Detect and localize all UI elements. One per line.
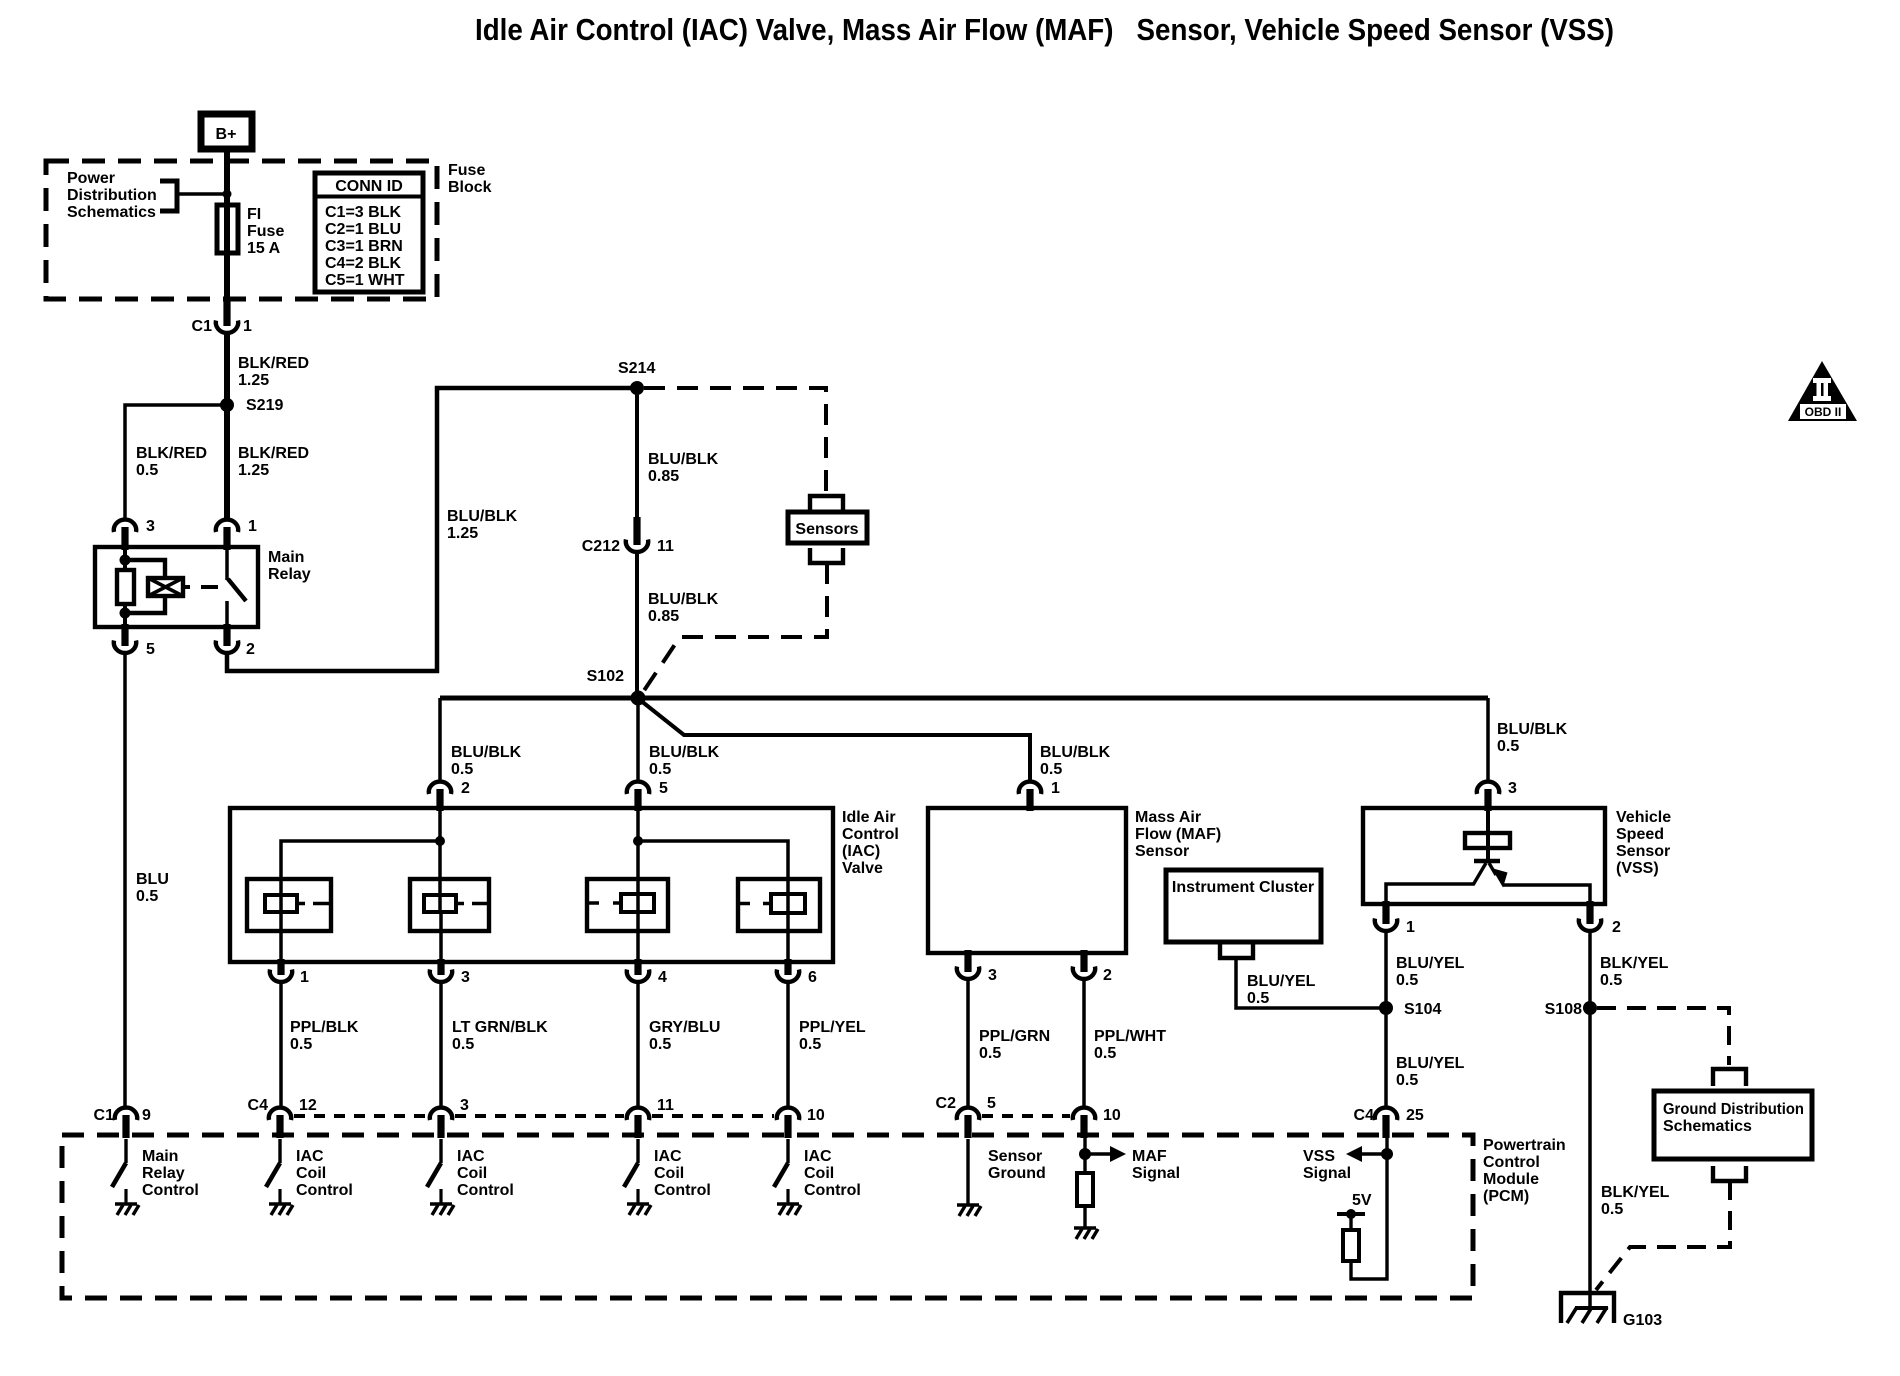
wire label BLU 0.5 <box>136 871 169 905</box>
splice S108 <box>1583 1001 1597 1015</box>
instrument cluster connector bracket <box>1220 944 1253 958</box>
PCM ground main relay control <box>115 1204 139 1215</box>
MAF signal arrow <box>1085 1146 1126 1162</box>
wire B+ to fuse FI <box>224 149 230 302</box>
wire label GRY/BLU <box>649 1019 720 1053</box>
svg-text:C4: C4 <box>248 1097 269 1114</box>
MAF signal label <box>1132 1148 1180 1182</box>
IAC internal node B <box>633 836 643 846</box>
svg-text:Distribution: Distribution <box>67 187 157 204</box>
5V pullup wire lower <box>1351 1138 1387 1279</box>
dashed wire S108 to ground distribution <box>1597 1008 1729 1065</box>
svg-text:5: 5 <box>659 780 668 797</box>
VSS connector pin 1 <box>1375 901 1415 936</box>
wire label BLU/BLK 0.5 iac5 <box>649 744 720 778</box>
svg-text:OBD II: OBD II <box>1805 405 1842 419</box>
svg-text:S108: S108 <box>1545 1001 1582 1018</box>
svg-text:Coil: Coil <box>804 1165 834 1182</box>
svg-text:FI: FI <box>247 206 261 223</box>
svg-text:Powertrain: Powertrain <box>1483 1137 1566 1154</box>
main relay connector pin 2 <box>216 624 255 658</box>
IAC coil3 wire to pin4 <box>636 912 640 965</box>
svg-text:Speed: Speed <box>1616 826 1664 843</box>
VSS transistor base bar <box>1474 859 1500 863</box>
wire BLU/BLK 0.85 S214 to C212 <box>635 388 639 524</box>
svg-text:BLK/YEL: BLK/YEL <box>1601 1184 1670 1201</box>
svg-text:0.5: 0.5 <box>136 462 158 479</box>
PCM ground IAC coil 3 <box>627 1204 651 1215</box>
svg-text:BLK/RED: BLK/RED <box>136 445 207 462</box>
wire BLU/BLK 0.5 to IAC pin5 <box>636 698 640 781</box>
svg-text:5: 5 <box>987 1095 996 1112</box>
main relay box <box>95 547 258 627</box>
svg-text:Signal: Signal <box>1132 1165 1180 1182</box>
PCM sensor ground wire <box>966 1139 969 1204</box>
svg-text:Sensors: Sensors <box>795 521 858 538</box>
VSS transistor collector leg with arrow <box>1489 863 1508 888</box>
svg-text:Signal: Signal <box>1303 1165 1351 1182</box>
svg-text:3: 3 <box>146 518 155 535</box>
wire label PPL/BLK <box>290 1019 359 1053</box>
OBD II mark <box>1788 361 1857 421</box>
wire label BLK/YEL vss lower <box>1601 1184 1670 1218</box>
svg-text:IAC: IAC <box>296 1148 324 1165</box>
svg-text:Control: Control <box>457 1182 514 1199</box>
svg-text:C1: C1 <box>94 1107 115 1124</box>
main relay control label <box>142 1148 199 1199</box>
IAC coil 2 <box>410 879 489 931</box>
sensors box <box>788 512 867 543</box>
ground distribution schematics box <box>1654 1091 1812 1159</box>
svg-text:0.5: 0.5 <box>1396 1072 1418 1089</box>
PCM connector pin 3 <box>430 1097 469 1138</box>
svg-text:BLU/BLK: BLU/BLK <box>648 591 719 608</box>
PCM connector C4 pin 12 <box>248 1097 317 1138</box>
svg-text:Control: Control <box>1483 1154 1540 1171</box>
PCM connector C4 pin 25 <box>1354 1107 1424 1138</box>
svg-text:Block: Block <box>448 179 492 196</box>
svg-text:IAC: IAC <box>457 1148 485 1165</box>
svg-text:C2: C2 <box>936 1095 957 1112</box>
wire label BLU/BLK 0.5 maf <box>1040 744 1111 778</box>
wire label LT GRN/BLK <box>452 1019 548 1053</box>
tap junction dot <box>223 190 232 199</box>
svg-text:1: 1 <box>243 318 252 335</box>
PCM connector C1 pin 9 <box>94 1107 151 1138</box>
svg-text:0.5: 0.5 <box>1497 738 1519 755</box>
relay coil wire from pin3 <box>123 547 127 570</box>
VSS box <box>1363 808 1605 904</box>
svg-text:Fuse: Fuse <box>247 223 284 240</box>
dashed wire S214 to sensors <box>644 388 826 494</box>
svg-text:S219: S219 <box>246 397 283 414</box>
svg-text:C212: C212 <box>582 538 620 555</box>
dotted connector link 5-10 <box>982 1114 1070 1118</box>
main relay connector pin 3 <box>114 518 155 550</box>
power distribution schematics reference <box>67 170 157 221</box>
VSS signal label <box>1303 1148 1351 1182</box>
svg-text:0.85: 0.85 <box>648 468 679 485</box>
VSS signal arrow <box>1346 1146 1387 1162</box>
splice S104 <box>1379 1001 1393 1015</box>
svg-text:Idle Air Control (IAC) Valve,: Idle Air Control (IAC) Valve, Mass Air F… <box>475 12 1614 47</box>
wire BLU/BLK 0.85 C212 to S102 <box>635 552 639 694</box>
svg-text:(IAC): (IAC) <box>842 843 880 860</box>
ground G103 symbol <box>1561 1293 1614 1323</box>
svg-text:2: 2 <box>1612 919 1621 936</box>
svg-text:0.5: 0.5 <box>1094 1045 1116 1062</box>
svg-text:1.25: 1.25 <box>238 462 269 479</box>
svg-text:BLU/YEL: BLU/YEL <box>1396 955 1465 972</box>
VSS sensor element <box>1465 833 1510 848</box>
VSS transistor emitter leg <box>1473 863 1486 885</box>
PCM connector pin 11 <box>627 1097 674 1138</box>
main relay connector pin 1 <box>216 518 257 550</box>
S214 label <box>618 360 655 377</box>
svg-text:Control: Control <box>296 1182 353 1199</box>
IAC connector pin 2 <box>429 780 470 811</box>
PCM dashed outline <box>62 1135 1473 1298</box>
svg-text:0.85: 0.85 <box>648 608 679 625</box>
svg-text:0.5: 0.5 <box>1600 972 1622 989</box>
svg-text:0.5: 0.5 <box>799 1036 821 1053</box>
svg-text:Sensor: Sensor <box>988 1148 1042 1165</box>
relay coil resistor <box>117 570 134 604</box>
PCM sensor ground symbol <box>957 1205 981 1216</box>
ground distribution bracket top <box>1713 1069 1746 1086</box>
MAF pulldown ground <box>1074 1228 1098 1239</box>
wire label BLK/YEL vss upper <box>1600 955 1669 989</box>
svg-text:Relay: Relay <box>142 1165 185 1182</box>
svg-text:Control: Control <box>142 1182 199 1199</box>
IAC internal branch to coil1 <box>281 841 440 913</box>
splice S102 <box>631 691 646 706</box>
wire BLU/BLK 0.5 to VSS pin3 <box>1486 698 1490 781</box>
IAC valve box <box>230 808 833 962</box>
wire BLU/BLK 0.5 diagonal to MAF <box>640 700 1030 781</box>
svg-text:12: 12 <box>299 1097 317 1114</box>
wire PPL/BLK 0.5 <box>279 982 283 1108</box>
IAC coil1 wire to pin1 <box>279 912 283 965</box>
svg-text:1: 1 <box>300 969 309 986</box>
wire PPL/GRN 0.5 <box>966 980 970 1108</box>
svg-text:Coil: Coil <box>457 1165 487 1182</box>
sensor ground label <box>988 1148 1046 1182</box>
MAF sensor box <box>928 808 1126 953</box>
S219 label <box>246 397 283 414</box>
svg-text:LT GRN/BLK: LT GRN/BLK <box>452 1019 548 1036</box>
relay switch lower contact <box>225 601 229 630</box>
IAC coil2 wire to pin3 <box>439 912 443 965</box>
S108 label <box>1545 1001 1582 1018</box>
svg-text:1: 1 <box>248 518 257 535</box>
svg-text:(VSS): (VSS) <box>1616 860 1659 877</box>
svg-text:Valve: Valve <box>842 860 883 877</box>
IAC coil 1 <box>247 879 331 931</box>
MAF signal node <box>1079 1148 1091 1160</box>
wire label BLU/YEL cluster <box>1247 973 1316 1007</box>
wire BLK/RED 1.25 to relay pin1 <box>224 405 230 518</box>
VSS connector pin 3 <box>1477 780 1517 811</box>
svg-text:BLU: BLU <box>136 871 169 888</box>
VSS internal wire to pin2 <box>1503 885 1590 904</box>
svg-text:BLU/YEL: BLU/YEL <box>1247 973 1316 990</box>
relay coil wire to pin5 <box>123 604 127 630</box>
MAF connector pin 2 <box>1073 950 1112 984</box>
PCM IAC coil control switch 3 <box>624 1139 638 1203</box>
svg-text:0.5: 0.5 <box>649 761 671 778</box>
wire label BLU/BLK 0.5 vss <box>1497 721 1568 755</box>
wire label PPL/WHT <box>1094 1028 1166 1062</box>
wire BLU/YEL cluster to S104 <box>1236 958 1380 1008</box>
IAC connector pin 4 <box>627 959 667 986</box>
svg-text:Fuse: Fuse <box>448 162 485 179</box>
wire BLK/RED 1.25 to S219 <box>224 333 230 405</box>
wire PPL/YEL 0.5 <box>786 982 790 1108</box>
svg-text:3: 3 <box>988 967 997 984</box>
IAC coil control label 1 <box>296 1148 353 1199</box>
wire label BLU/BLK 1.25 <box>447 508 518 542</box>
svg-text:Schematics: Schematics <box>1663 1118 1752 1135</box>
svg-text:9: 9 <box>142 1107 151 1124</box>
svg-text:C4=2 BLK: C4=2 BLK <box>325 255 401 272</box>
wire label BLU/BLK 0.85 lower <box>648 591 719 625</box>
relay switch blade <box>228 579 246 601</box>
main relay connector pin 5 <box>114 624 155 658</box>
svg-text:2: 2 <box>246 641 255 658</box>
tap wire from bracket to feed <box>177 192 227 195</box>
wire LT GRN/BLK 0.5 <box>439 982 443 1108</box>
svg-text:2: 2 <box>1103 967 1112 984</box>
wire BLU/YEL 0.5 vss pin1 <box>1384 932 1388 1108</box>
IAC valve label <box>842 809 899 877</box>
5V node dot <box>1346 1209 1356 1219</box>
svg-text:VSS: VSS <box>1303 1148 1335 1165</box>
fuse FI 15A symbol <box>217 205 238 253</box>
IAC coil control label 3 <box>654 1148 711 1199</box>
svg-text:Main: Main <box>142 1148 178 1165</box>
wire label BLK/RED 0.5 <box>136 445 207 479</box>
CONN ID table <box>315 173 423 292</box>
svg-text:Coil: Coil <box>654 1165 684 1182</box>
MAF connector pin 3 <box>957 950 997 984</box>
S104 label <box>1404 1001 1441 1018</box>
svg-text:11: 11 <box>657 538 674 555</box>
svg-text:5: 5 <box>146 641 155 658</box>
IAC coil4 wire to pin6 <box>786 913 790 965</box>
VSS pullup resistor <box>1343 1230 1359 1261</box>
svg-text:Ground Distribution: Ground Distribution <box>1663 1101 1804 1118</box>
svg-text:Power: Power <box>67 170 115 187</box>
relay switch upper contact <box>225 547 229 580</box>
dotted connector link 3-11 <box>455 1114 624 1118</box>
svg-text:Control: Control <box>654 1182 711 1199</box>
G103 label <box>1623 1312 1662 1329</box>
svg-text:3: 3 <box>460 1097 469 1114</box>
svg-text:Vehicle: Vehicle <box>1616 809 1671 826</box>
svg-text:BLU/BLK: BLU/BLK <box>447 508 518 525</box>
svg-text:B+: B+ <box>216 126 237 143</box>
PCM IAC coil control switch 4 <box>774 1139 788 1203</box>
svg-text:BLK/RED: BLK/RED <box>238 445 309 462</box>
wire label BLU/YEL vss lower <box>1396 1055 1465 1089</box>
svg-text:Instrument Cluster: Instrument Cluster <box>1172 879 1314 896</box>
wire label PPL/GRN <box>979 1028 1050 1062</box>
relay node top <box>120 555 131 566</box>
svg-text:S104: S104 <box>1404 1001 1441 1018</box>
svg-text:1.25: 1.25 <box>447 525 478 542</box>
IAC coil control label 2 <box>457 1148 514 1199</box>
PCM connector pin 10 <box>777 1107 825 1138</box>
ground distribution bracket bottom <box>1713 1166 1746 1181</box>
svg-text:1: 1 <box>1051 780 1060 797</box>
IAC internal wire pin2 drop <box>438 808 442 913</box>
battery feed B+ terminal <box>201 114 252 149</box>
svg-text:S102: S102 <box>587 668 624 685</box>
svg-text:0.5: 0.5 <box>1040 761 1062 778</box>
svg-text:Main: Main <box>268 549 304 566</box>
svg-text:C3=1 BRN: C3=1 BRN <box>325 238 403 255</box>
fuse block label <box>448 162 492 196</box>
wire GRY/BLU 0.5 <box>636 982 640 1108</box>
5V pullup wire upper <box>1349 1214 1352 1230</box>
wire label BLU/BLK 0.85 upper <box>648 451 719 485</box>
svg-text:PPL/BLK: PPL/BLK <box>290 1019 359 1036</box>
5V supply bar <box>1337 1212 1365 1216</box>
svg-text:C2=1 BLU: C2=1 BLU <box>325 221 401 238</box>
svg-text:15 A: 15 A <box>247 240 281 257</box>
svg-text:0.5: 0.5 <box>649 1036 671 1053</box>
svg-text:PPL/GRN: PPL/GRN <box>979 1028 1050 1045</box>
svg-text:BLK/YEL: BLK/YEL <box>1600 955 1669 972</box>
svg-text:IAC: IAC <box>654 1148 682 1165</box>
svg-text:Sensor: Sensor <box>1616 843 1670 860</box>
PCM IAC coil control switch 2 <box>427 1139 441 1203</box>
svg-text:(PCM): (PCM) <box>1483 1188 1529 1205</box>
svg-text:4: 4 <box>658 969 667 986</box>
svg-text:BLU/BLK: BLU/BLK <box>451 744 522 761</box>
svg-text:S214: S214 <box>618 360 655 377</box>
VSS signal node <box>1381 1148 1393 1160</box>
svg-text:C1=3 BLK: C1=3 BLK <box>325 204 401 221</box>
svg-text:2: 2 <box>461 780 470 797</box>
dashed wire ground distribution to G103 <box>1596 1181 1730 1290</box>
dotted connector link 12-3 <box>294 1114 427 1118</box>
fuse block dashed outline <box>46 161 437 299</box>
bus wire BLU/BLK S102 horizontal <box>440 696 1488 701</box>
wire BLU/BLK 0.5 to IAC pin2 <box>438 698 442 781</box>
svg-text:G103: G103 <box>1623 1312 1662 1329</box>
svg-text:C1: C1 <box>192 318 213 335</box>
relay actuator dashed link <box>183 585 218 589</box>
IAC coil control label 4 <box>804 1148 861 1199</box>
wire label BLU/YEL vss upper <box>1396 955 1465 989</box>
splice S219 <box>220 398 234 412</box>
svg-text:0.5: 0.5 <box>136 888 158 905</box>
IAC internal wire pin5 drop <box>636 808 640 913</box>
wire label BLK/RED 1.25 lower <box>238 445 309 479</box>
fuse FI label <box>247 206 284 257</box>
svg-text:0.5: 0.5 <box>290 1036 312 1053</box>
svg-text:0.5: 0.5 <box>1247 990 1269 1007</box>
wire label BLK/RED 1.25 upper <box>238 355 309 389</box>
svg-text:BLK/RED: BLK/RED <box>238 355 309 372</box>
wire BLU 0.5 relay pin5 to PCM <box>123 653 127 1108</box>
MAF signal pulldown wire upper <box>1083 1138 1086 1173</box>
svg-text:6: 6 <box>808 969 817 986</box>
svg-text:10: 10 <box>807 1107 825 1124</box>
svg-text:BLU/BLK: BLU/BLK <box>648 451 719 468</box>
svg-text:0.5: 0.5 <box>451 761 473 778</box>
dotted connector link 11-10 <box>652 1114 774 1118</box>
VSS internal wire to pin1 <box>1386 884 1474 904</box>
svg-text:0.5: 0.5 <box>1396 972 1418 989</box>
PCM connector C2 pin 5 <box>936 1095 996 1138</box>
PCM ground IAC coil 4 <box>777 1204 801 1215</box>
wire label BLU/BLK 0.5 iac2 <box>451 744 522 778</box>
svg-text:Control: Control <box>804 1182 861 1199</box>
sensors connector bracket bottom <box>810 548 843 563</box>
svg-text:Module: Module <box>1483 1171 1539 1188</box>
svg-text:Control: Control <box>842 826 899 843</box>
svg-text:PPL/YEL: PPL/YEL <box>799 1019 866 1036</box>
IAC coil 4 <box>738 879 820 931</box>
IAC connector pin 5 <box>627 780 668 811</box>
svg-text:5V: 5V <box>1352 1192 1372 1209</box>
IAC connector pin 6 <box>777 959 817 986</box>
VSS internal wire from pin3 <box>1486 808 1490 859</box>
svg-text:0.5: 0.5 <box>1601 1201 1623 1218</box>
wire label PPL/YEL <box>799 1019 866 1053</box>
svg-text:10: 10 <box>1103 1107 1121 1124</box>
svg-text:BLU/BLK: BLU/BLK <box>1040 744 1111 761</box>
IAC internal branch to coil4 <box>638 841 788 914</box>
relay solenoid box with X <box>148 578 183 596</box>
sensors connector bracket top <box>810 496 843 512</box>
svg-text:0.5: 0.5 <box>979 1045 1001 1062</box>
svg-text:BLU/BLK: BLU/BLK <box>649 744 720 761</box>
MAF sensor label <box>1135 809 1221 860</box>
relay parallel branch bottom <box>125 596 165 613</box>
PCM IAC coil control switch 1 <box>266 1139 280 1203</box>
PCM main relay control switch <box>112 1139 126 1203</box>
svg-text:C5=1 WHT: C5=1 WHT <box>325 272 405 289</box>
svg-text:11: 11 <box>657 1097 674 1114</box>
svg-text:Idle Air: Idle Air <box>842 809 896 826</box>
svg-text:GRY/BLU: GRY/BLU <box>649 1019 720 1036</box>
IAC coil 3 <box>587 879 668 931</box>
wire BLK/RED 0.5 branch to relay pin3 <box>125 405 222 518</box>
svg-text:BLU/BLK: BLU/BLK <box>1497 721 1568 738</box>
wire PPL/WHT 0.5 <box>1082 980 1086 1108</box>
svg-text:3: 3 <box>461 969 470 986</box>
dashed wire sensors to S102 <box>641 563 827 695</box>
svg-text:BLU/YEL: BLU/YEL <box>1396 1055 1465 1072</box>
PCM label <box>1483 1137 1566 1205</box>
svg-text:C4: C4 <box>1354 1107 1375 1124</box>
S102 label <box>587 668 624 685</box>
instrument cluster box <box>1166 870 1321 942</box>
svg-text:3: 3 <box>1508 780 1517 797</box>
relay parallel branch top <box>125 560 165 578</box>
svg-text:25: 25 <box>1406 1107 1424 1124</box>
svg-text:Sensor: Sensor <box>1135 843 1189 860</box>
splice S214 <box>630 381 644 395</box>
VSS connector pin 2 <box>1579 901 1621 936</box>
connector C212 pin 11 <box>582 517 674 555</box>
IAC connector pin 1 <box>270 959 309 986</box>
svg-text:1: 1 <box>1406 919 1415 936</box>
